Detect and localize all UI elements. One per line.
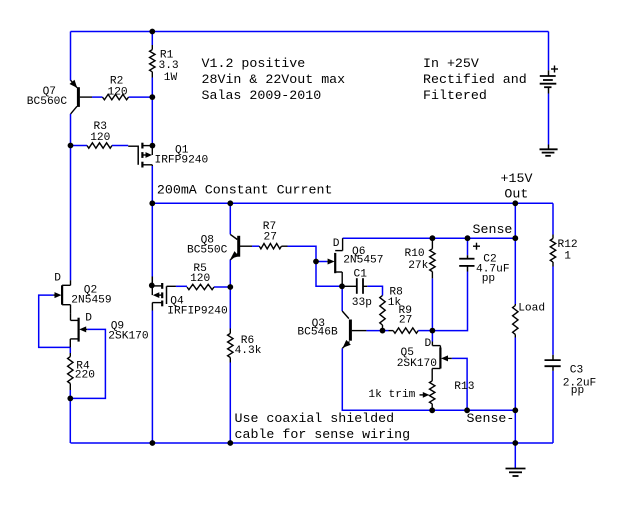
node +15V rail / Q8 branch [227,200,233,206]
text In +25V [423,56,479,71]
wire R2 left segment [92,96,103,98]
svg-text:IRFIP9240: IRFIP9240 [167,306,228,318]
label R5 [190,263,210,285]
wire R3 left segment [71,145,88,147]
wire battery top lead [548,32,550,71]
wire Q3 emitter down and sense- line [342,348,515,410]
wire left rail upper (top rail to Q7 emitter) [70,32,72,81]
wire node to C2 bottom [432,272,467,331]
wire C3 bottom to ground rail [552,371,554,443]
text title 28Vin [202,72,346,87]
text Sense [473,222,513,237]
wire battery bottom to ground [548,94,550,145]
wire Q9 gate loop [70,329,105,398]
text cable for sense wiring [235,427,411,442]
capacitor C3 2.2uF PP [545,355,561,371]
svg-text:BC550C: BC550C [187,244,228,256]
node Q1 drain [150,143,156,149]
svg-text:BC560C: BC560C [27,96,68,108]
label R10 [405,248,429,272]
label C2 [476,253,510,285]
node R9 / R10 / Q5 drain [430,328,436,334]
transistor Q6 2N5457 [327,238,342,286]
wire R2 right segment to node [129,96,153,98]
label R2 [108,76,128,99]
label Q2 D [54,273,61,285]
transistor Q1 IRFP9240 [128,143,152,168]
svg-text:D: D [85,313,92,325]
svg-text:2SK170: 2SK170 [397,358,438,370]
svg-text:Rectified and: Rectified and [423,72,527,87]
svg-text:2N5457: 2N5457 [343,255,383,267]
label R8 [388,286,403,309]
svg-text:pp: pp [571,385,584,397]
label Q1 [155,144,209,166]
svg-text:2SK170: 2SK170 [108,330,149,342]
wire R12 branch from +15V rail corner [552,203,554,234]
wire Q8 base to R7 [252,245,259,247]
wire Q3 base segment [366,330,382,332]
svg-text:33p: 33p [352,297,372,309]
wire Q5 gate to sense- line [452,358,467,410]
node top rail / R1 [149,29,155,35]
wire sense+ rail (Q6 drain to +15V branch) [343,237,516,239]
label Q9 D [85,313,92,325]
svg-text:D: D [425,338,432,350]
wire R6 bottom to ground rail [229,363,231,444]
label R3 [90,121,110,144]
transistor Q5 2SK170 [432,342,452,375]
text title Salas [202,88,322,103]
svg-text:27: 27 [264,231,277,243]
resistor R5 120 [187,284,214,289]
node C1 / Q6 source / Q3 collector [339,283,345,289]
wire R7 right then down to C1 node [288,246,342,286]
resistor R10 27k [430,240,435,279]
text Use coaxial shielded [235,411,395,426]
node sense rail / out branch [512,235,518,241]
svg-text:Salas 2009-2010: Salas 2009-2010 [202,88,322,103]
resistor R2 120 [103,94,129,99]
label R4 [75,361,95,382]
label Q4 [167,296,228,318]
label R7 [263,221,277,243]
wire R9 right node to R10 node [418,330,432,332]
wire Q4 gate to R5 [176,285,187,287]
resistor R13 1k trim [430,375,435,411]
wire R1 top lead from rail [151,32,153,46]
svg-text:3.3: 3.3 [159,60,179,72]
text Filtered [423,88,487,103]
label R1 [159,50,179,85]
node bottom rail / Q4 branch [150,440,156,446]
resistor Load [513,304,518,338]
label Q6 [343,246,383,267]
wire C1 right lead to R8 [367,286,382,295]
node sense rail / C2 [465,235,471,241]
transistor Q3 BC546B [342,311,366,348]
label Q2 [71,285,111,307]
node sense rail / R10 [430,235,436,241]
wire C2 top lead [467,238,469,255]
wire R3 right segment [112,145,128,147]
svg-text:Filtered: Filtered [423,88,487,103]
svg-text:Use coaxial shielded: Use coaxial shielded [235,411,395,426]
wire Q4 drain from +15V rail [151,203,153,276]
wire Load bottom lead [514,338,516,444]
battery In +25V [540,66,558,94]
resistor R8 1k [380,296,385,331]
wire +15V horizontal rail [152,202,553,204]
label R9 [399,305,413,326]
svg-text:cable for sense wiring: cable for sense wiring [235,427,411,442]
node bottom rail / R6 [227,440,233,446]
ground top right (battery) [540,145,558,156]
svg-text:+15V: +15V [501,171,533,186]
resistor R1 3.3 1W [150,45,155,78]
label Q5 D [425,338,432,350]
svg-text:200mA Constant Current: 200mA Constant Current [157,182,333,197]
wire +15V out branch down [514,203,516,304]
wire R10 bottom lead [431,278,433,330]
svg-text:D: D [54,273,61,285]
node R5 / Q8 emitter [227,284,233,290]
node R3 / left rail [68,143,74,149]
wire top positive rail [71,31,549,33]
label C1 [352,268,372,309]
text title V1.2 [202,56,306,71]
node R4 bottom [67,396,73,402]
svg-text:1: 1 [564,250,571,262]
node sense- / Q5 gate [464,407,470,413]
label C3 [563,365,597,397]
transistor Q9 2SK170 [70,313,87,347]
svg-text:Load: Load [518,302,545,314]
svg-text:Sense: Sense [473,222,513,237]
svg-text:BC546B: BC546B [297,327,338,339]
node R8 / R9 / Q3 base [380,328,386,334]
label Load [518,302,545,314]
node +15V rail / Q4 branch [149,200,155,206]
svg-text:27: 27 [399,314,412,326]
capacitor C2 4.7uF PP [459,243,480,272]
wire Q5 drain lead from node [431,331,433,342]
transistor Q2 2N5459 [53,280,70,313]
text Out [504,187,528,202]
wire Q6 gate tap [317,261,327,263]
ground bottom right [506,468,526,476]
svg-text:120: 120 [108,86,128,98]
text Sense- [467,411,515,426]
resistor R9 27 [389,328,419,333]
resistor R12 1 [550,235,555,267]
label R12 [558,239,578,262]
wire left rail (Q7 collector down to Q2 drain) [70,114,72,280]
transistor Q4 IRFIP9240 [152,277,176,311]
text 200mA Constant Current [157,182,333,197]
node +15V rail / out branch [512,200,518,206]
wire R1 bottom to Q1 drain [151,78,153,146]
label R6 [235,335,262,357]
svg-text:In +25V: In +25V [423,56,479,71]
label Q3 [297,318,338,339]
node sense- / load branch [512,407,518,413]
wire R5 right to node [214,286,230,288]
node Q4 drain stub [149,283,155,289]
transistor Q8 BC550C [230,234,252,259]
wire Q4 source down [151,311,153,444]
capacitor C1 33p [344,278,368,294]
svg-text:2N5459: 2N5459 [71,294,111,306]
node R2 / R1 bottom [149,94,155,100]
svg-text:120: 120 [190,273,210,285]
label Q7 [27,86,68,108]
resistor R6 4.3k [228,329,233,363]
label Q9 [108,320,149,342]
node sense- / R13 [429,407,435,413]
wire bottom ground rail [71,442,554,444]
svg-text:R13: R13 [454,381,474,393]
svg-text:1k trim: 1k trim [368,389,415,401]
node Q6 gate tap [313,259,319,265]
svg-text:D: D [333,238,340,250]
resistor R4 220 [68,353,73,390]
resistor R3 120 [87,143,112,148]
wire Q1 source down to +15V rail [151,166,153,203]
svg-text:1W: 1W [164,72,178,84]
svg-text:R10: R10 [405,248,425,260]
label Q8 [187,235,228,257]
transistor Q7 BC560C [70,80,93,114]
wire R9 left lead [383,330,389,332]
resistor R7 27 [259,244,287,249]
svg-text:220: 220 [75,370,95,382]
text Rectified and [423,72,527,87]
svg-text:V1.2 positive: V1.2 positive [202,56,306,71]
wire R4 top lead [69,347,71,353]
svg-text:pp: pp [482,273,495,285]
label Q5 [397,347,438,370]
wire Q8 collector from +15V rail [229,203,231,234]
svg-text:IRFP9240: IRFP9240 [155,154,209,166]
svg-text:4.3k: 4.3k [235,345,262,357]
wire Q3 collector from C1 node [341,286,343,311]
text +15V [501,171,533,186]
wire Q2 gate loop [39,295,71,347]
svg-text:Out: Out [504,187,528,202]
wire left rail lower (R4 bottom to bottom rail) [69,390,71,443]
label Q6 D [333,238,340,250]
svg-text:C1: C1 [354,268,368,280]
label 1k trim with wiper arrow [368,389,429,401]
svg-text:27k: 27k [408,260,428,272]
label R13 [454,381,474,393]
wire R12 bottom to C3 [552,267,554,355]
svg-text:120: 120 [90,132,110,144]
svg-text:R12: R12 [558,239,578,251]
node bottom rail / ground [512,440,518,446]
svg-text:Sense-: Sense- [467,411,515,426]
wire ground stub bottom right [514,443,516,468]
wire Q8 emitter down to R5 node [229,260,231,288]
svg-text:28Vin & 22Vout max: 28Vin & 22Vout max [202,72,346,87]
wire R6 top lead [229,287,231,329]
svg-text:C3: C3 [570,365,583,377]
